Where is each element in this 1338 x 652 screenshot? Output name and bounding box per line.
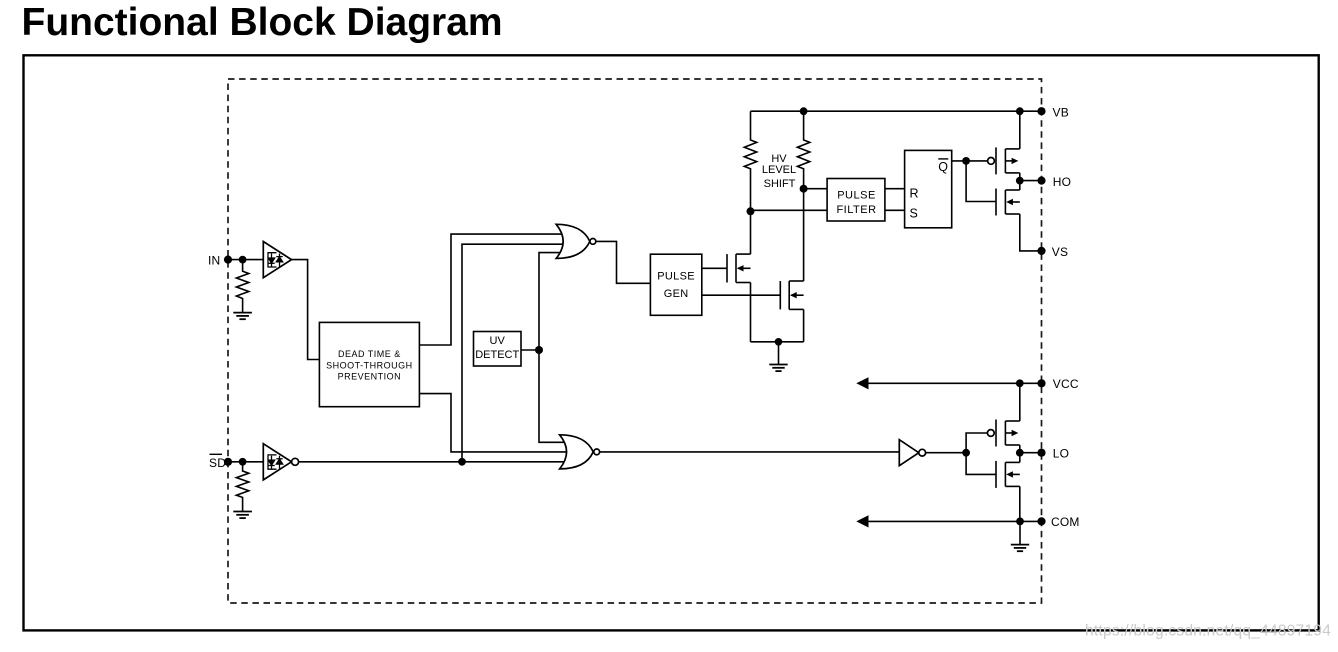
- svg-text:COM: COM: [1051, 515, 1080, 529]
- node COM pin dot: [1037, 517, 1045, 525]
- wire pulse gen out1 to Q1 gate: [702, 267, 727, 269]
- input buffer U2 (SD, inverting schmitt): [263, 444, 298, 480]
- wire Q1 drain to resistor R3 node: [750, 283, 752, 342]
- svg-text:SD: SD: [209, 456, 226, 470]
- svg-text:UV: UV: [490, 335, 506, 347]
- node R4 bottom junction: [800, 185, 808, 193]
- node VB pin dot: [1037, 107, 1045, 115]
- svg-text:HO: HO: [1053, 175, 1071, 189]
- junction and terminal dots: [224, 107, 1046, 525]
- wire UV detect output: [521, 349, 539, 351]
- svg-text:S: S: [910, 207, 918, 221]
- wire VCC rail: [868, 382, 1042, 384]
- wire Q3 drain to VB: [1019, 111, 1021, 149]
- dead time block: [319, 322, 419, 406]
- Q3 arrow: [1012, 158, 1019, 164]
- wire Q1 source down / common source rail: [750, 211, 752, 254]
- pulse filter block: [827, 179, 885, 222]
- wire COM rail: [868, 520, 1042, 522]
- input buffer U1 (IN, non-inverting schmitt): [263, 242, 291, 278]
- svg-text:LEVEL: LEVEL: [762, 164, 796, 176]
- resistor R3 (HV level shift left): [744, 111, 756, 211]
- Q2 arrow: [790, 292, 797, 298]
- wire Q6 drain to LO: [1019, 453, 1021, 463]
- transistor Q1 (level-shift NMOS left): [727, 254, 751, 282]
- resistor R1 (IN pull-down): [236, 260, 248, 313]
- node HO pin dot: [1037, 177, 1045, 185]
- transistor Q4 (HO low-side NMOS): [996, 189, 1020, 216]
- NOR gate G1 (high side): [556, 224, 596, 258]
- wire Q6 source to COM: [1019, 486, 1021, 521]
- arrow VCC (to internal logic): [856, 377, 868, 389]
- Q4 arrow: [1006, 199, 1013, 205]
- ground GND2 (SD resistor): [233, 512, 252, 519]
- wire latch Q output to HO driver gates: [952, 160, 988, 162]
- node COM junction: [1016, 518, 1024, 526]
- wire Q node down to NMOS gate: [966, 161, 996, 202]
- Q1 arrow: [737, 265, 744, 271]
- wire S line (left resistor node to pulse filter): [751, 209, 828, 211]
- wire VB rail: [751, 110, 1042, 112]
- node HO junction: [1016, 177, 1024, 185]
- wire LO node to pin: [1020, 452, 1042, 454]
- RS latch U3: [905, 150, 952, 227]
- svg-text:SHIFT: SHIFT: [764, 178, 796, 190]
- Q5 arrow: [1012, 430, 1019, 436]
- node level shift ground junction: [775, 338, 783, 346]
- svg-text:R: R: [910, 187, 919, 201]
- svg-text:VS: VS: [1052, 245, 1068, 259]
- wire SD branch up to NOR1 input2: [462, 244, 572, 462]
- wire SD input: [228, 461, 263, 463]
- svg-text:VCC: VCC: [1053, 377, 1079, 391]
- ground GND3 (level shifter): [778, 342, 780, 365]
- wire NOR2 output to inverter: [600, 451, 900, 453]
- node UV output junction: [535, 346, 543, 354]
- U2 clamp diodes glyph: [268, 455, 283, 469]
- svg-text:Functional Block Diagram: Functional Block Diagram: [22, 1, 503, 44]
- transistor Q6 (LO low-side NMOS): [996, 461, 1020, 488]
- PMOS Q3 gate bubble: [988, 158, 995, 165]
- wire Q4 drain to HO: [1019, 181, 1021, 190]
- wire dead-time out1 up to NOR1 input1: [419, 234, 572, 345]
- svg-text:PREVENTION: PREVENTION: [338, 372, 402, 382]
- svg-text:Q: Q: [938, 160, 948, 174]
- pulse gen block: [650, 254, 701, 315]
- svg-text:FILTER: FILTER: [836, 204, 876, 216]
- inverter U4 (LO path): [899, 440, 925, 466]
- transistor Q5 (LO high-side PMOS): [996, 420, 1020, 447]
- wire dead-time out2 down to NOR2 input2: [419, 394, 575, 452]
- wire pulse filter R output to latch: [885, 188, 905, 190]
- transistor Q2 (level-shift NMOS right): [780, 281, 803, 309]
- node IN junction: [239, 256, 247, 264]
- node SD pin dot: [224, 458, 232, 466]
- wire buffer U1 output to dead-time block: [292, 260, 320, 360]
- dashed IC boundary: [228, 79, 1042, 603]
- ground GND1 (IN resistor): [233, 313, 252, 320]
- wire Q3 source to HO: [1019, 173, 1021, 181]
- UV detect block: [474, 332, 522, 367]
- node SD junction: [239, 458, 247, 466]
- wire Q5 source to LO: [1019, 445, 1021, 453]
- svg-text:LO: LO: [1053, 446, 1069, 460]
- wire HO node to pin: [1020, 180, 1042, 182]
- svg-text:SHOOT-THROUGH: SHOOT-THROUGH: [326, 360, 413, 370]
- svg-text:PULSE: PULSE: [837, 189, 876, 201]
- svg-text:DETECT: DETECT: [475, 349, 519, 361]
- svg-text:VB: VB: [1053, 106, 1069, 120]
- wire gate node to PMOS bubble: [966, 433, 996, 474]
- wire Q2 source down: [803, 309, 805, 341]
- svg-text:IN: IN: [208, 254, 220, 268]
- PMOS Q5 gate bubble: [987, 430, 994, 437]
- resistor R2 (SD pull-down): [236, 462, 248, 512]
- svg-text:https://blog.csdn.net/qq_44897: https://blog.csdn.net/qq_44897194: [1085, 623, 1331, 640]
- node LO gate junction: [962, 449, 970, 457]
- ground GND4 (COM): [1019, 521, 1021, 544]
- node LO pin dot: [1037, 449, 1045, 457]
- svg-text:PULSE: PULSE: [657, 270, 695, 282]
- node VB rail left junction: [800, 107, 808, 115]
- NOR gate G2 (low side): [560, 435, 600, 469]
- node Qbar junction: [962, 157, 970, 165]
- node LO junction: [1016, 449, 1024, 457]
- node VS pin dot: [1037, 247, 1045, 255]
- node VB drain junction: [1016, 107, 1024, 115]
- wire IN input: [228, 259, 263, 261]
- node VCC junction: [1016, 379, 1024, 387]
- wire Q4 source to VS: [1020, 214, 1042, 251]
- wire Q2 drain to resistor R4 node: [803, 189, 805, 281]
- node SD branch junction: [458, 458, 466, 466]
- resistor R4 (HV level shift right): [797, 111, 809, 189]
- wire pulse gen out2 to Q2 gate: [702, 294, 781, 296]
- wire NOR1 output to pulse gen: [596, 241, 651, 283]
- transistor Q3 (HO high-side PMOS): [996, 147, 1020, 174]
- arrows on MOSFETs: [737, 158, 1019, 528]
- wire UV node vertical to NOR1 input3 and NOR2 input1: [539, 253, 575, 443]
- node R3 bottom junction: [747, 207, 755, 215]
- wire VCC down to Q5 drain: [1019, 383, 1021, 421]
- svg-text:DEAD TIME &: DEAD TIME &: [338, 349, 401, 359]
- wire R line (right resistor node to pulse filter): [804, 188, 828, 190]
- node VCC pin dot: [1037, 379, 1045, 387]
- wire SD inverter output to NOR2 input: [299, 461, 575, 463]
- Q6 arrow: [1006, 471, 1013, 477]
- svg-text:GEN: GEN: [664, 288, 689, 300]
- node IN pin dot: [224, 256, 232, 264]
- wire pulse filter S output to latch: [885, 209, 905, 211]
- wire common source rail to ground: [751, 341, 804, 343]
- wire inverter output to LO driver gates: [925, 452, 966, 454]
- arrow COM (to internal logic): [856, 515, 868, 527]
- U1 clamp diodes glyph: [268, 253, 283, 267]
